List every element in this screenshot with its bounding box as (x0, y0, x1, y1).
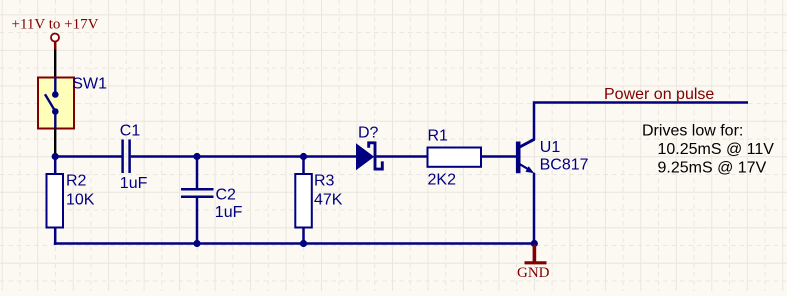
wire: R3 bottom lead (302, 227, 305, 244)
zener diode D? (356, 142, 382, 171)
junction dot D (R3 top tap) (300, 153, 307, 160)
svg-text:2K2: 2K2 (428, 172, 457, 189)
svg-text:47K: 47K (314, 191, 343, 208)
svg-text:R2: R2 (66, 172, 87, 189)
wire: diode cathode to R1 (377, 155, 429, 158)
transistor U1 (NPN) (516, 139, 535, 173)
svg-text:U1: U1 (540, 139, 561, 156)
wire: R2 bottom lead (54, 227, 57, 245)
power port stub (54, 42, 57, 50)
junction dot E (R3 to ground rail) (300, 240, 307, 247)
wire: C2 bottom lead (196, 198, 199, 244)
wire: R1 to transistor base (481, 155, 516, 158)
svg-text:10K: 10K (66, 191, 95, 208)
pin 1 of SW1 (from port to switch body) (54, 50, 56, 78)
svg-text:C2: C2 (216, 187, 237, 204)
svg-text:R3: R3 (314, 172, 335, 189)
wire: junction A to C1 left plate (54, 155, 122, 158)
junction dot A (52, 153, 59, 160)
resistor R3 (295, 174, 312, 228)
svg-text:BC817: BC817 (540, 157, 589, 174)
svg-text:1uF: 1uF (215, 204, 243, 221)
svg-text:R1: R1 (428, 128, 449, 145)
svg-text:D?: D? (358, 124, 379, 141)
svg-text:SW1: SW1 (72, 76, 107, 93)
resistor R2 (47, 174, 64, 228)
svg-text:GND: GND (517, 265, 550, 281)
svg-text:Drives low for:: Drives low for: (642, 123, 743, 140)
capacitor C2 (181, 189, 214, 196)
svg-text:9.25mS @ 17V: 9.25mS @ 17V (658, 160, 767, 177)
svg-text:1uF: 1uF (120, 175, 148, 192)
junction dot F (emitter to ground rail) (531, 240, 538, 247)
ground symbol (525, 245, 547, 263)
resistor R1 (428, 148, 482, 167)
wire: C2 top lead (196, 157, 199, 190)
power port terminal circle (51, 34, 59, 42)
switch SW1 (38, 78, 74, 129)
wire: collector up and output net (Power on pulse) (534, 103, 748, 141)
svg-text:C1: C1 (120, 122, 141, 139)
pin 2 of SW1 (from switch body to junction A) (54, 129, 56, 157)
junction dot B (C2 tap) (193, 153, 200, 160)
junction dot C (C2 to ground rail) (193, 240, 200, 247)
wire: C1 right plate to diode anode (through junctions B and D) (131, 155, 357, 158)
svg-text:10.25mS @ 11V: 10.25mS @ 11V (658, 141, 775, 158)
wire: ground rail (54, 242, 535, 245)
wire: R3 top lead (302, 157, 305, 176)
svg-text:+11V to +17V: +11V to +17V (12, 17, 99, 33)
capacitor C1 (123, 140, 130, 174)
wire: junction A down to R2 (54, 157, 57, 176)
wire: emitter down to ground rail (533, 173, 536, 244)
svg-text:Power on pulse: Power on pulse (604, 86, 714, 103)
